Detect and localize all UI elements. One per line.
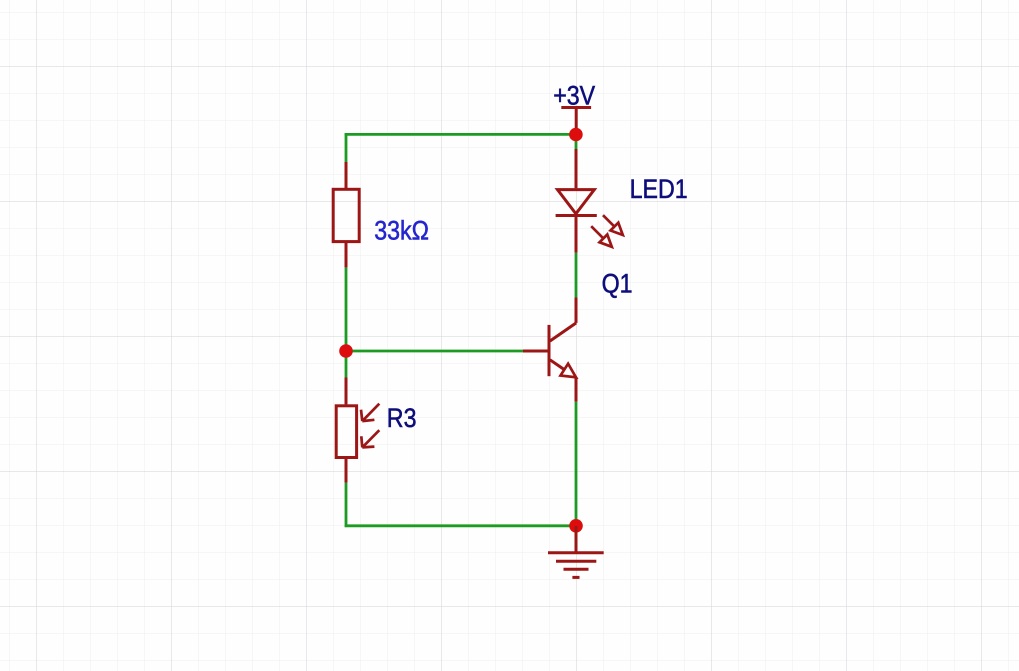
resistor R1 body (333, 189, 359, 241)
label LED1 (630, 175, 688, 205)
power flag +3V (561, 108, 591, 135)
svg-text:LED1: LED1 (630, 175, 688, 205)
wire: left vertical from top rail to R1 (345, 133, 348, 162)
photoresistor R3 bottom pin (345, 459, 348, 483)
label R3 (387, 404, 417, 434)
LED LED1 light arrow upper (603, 215, 623, 235)
wire: short stub from +3V node to LED1 anode (575, 135, 578, 150)
transistor Q1 emitter arrow (561, 364, 577, 378)
wire: base wire from node to Q1 (346, 350, 523, 353)
svg-text:Q1: Q1 (602, 269, 633, 299)
value label 33kΩ (374, 216, 429, 246)
net label +3V (553, 81, 595, 111)
transistor Q1 emitter pin (575, 377, 578, 402)
svg-text:33kΩ: 33kΩ (374, 216, 429, 246)
label Q1 (602, 269, 633, 299)
wire: bottom horizontal net (ground rail) (345, 524, 576, 527)
svg-text:+3V: +3V (553, 81, 595, 111)
LED LED1 light arrow lower (591, 226, 612, 247)
photoresistor R3 light arrow lower (361, 430, 379, 447)
photoresistor R3 light arrow upper (361, 404, 379, 421)
photoresistor R3 body (336, 406, 356, 458)
LED LED1 anode pin (575, 149, 578, 188)
wire: left vertical between R1 and R3 (through base node) (345, 267, 348, 377)
wire: top horizontal net (+3V rail) (345, 133, 576, 136)
LED LED1 cathode bar (556, 214, 597, 217)
junction dot: base node (339, 344, 353, 358)
resistor R1 top pin (345, 162, 348, 188)
LED LED1 cathode pin (575, 216, 578, 253)
junction dot: +3V node (569, 128, 583, 142)
wire: right vertical between LED1 cathode and Q1 collector (575, 253, 578, 298)
wire: right vertical from Q1 emitter to ground node (575, 402, 578, 526)
resistor R1 bottom pin (345, 243, 348, 267)
photoresistor R3 top pin (345, 378, 348, 405)
wire: left vertical from R3 to bottom rail (345, 483, 348, 527)
junction dot: ground node (569, 519, 583, 533)
transistor Q1 base pin (523, 350, 549, 353)
transistor Q1 base bar (548, 325, 551, 376)
LED LED1 triangle (558, 190, 595, 214)
ground symbol (548, 526, 604, 577)
svg-text:R3: R3 (387, 404, 417, 434)
transistor Q1 collector pin (575, 298, 578, 323)
transistor Q1 emitter diagonal (550, 360, 564, 370)
transistor Q1 collector diagonal (550, 323, 576, 341)
